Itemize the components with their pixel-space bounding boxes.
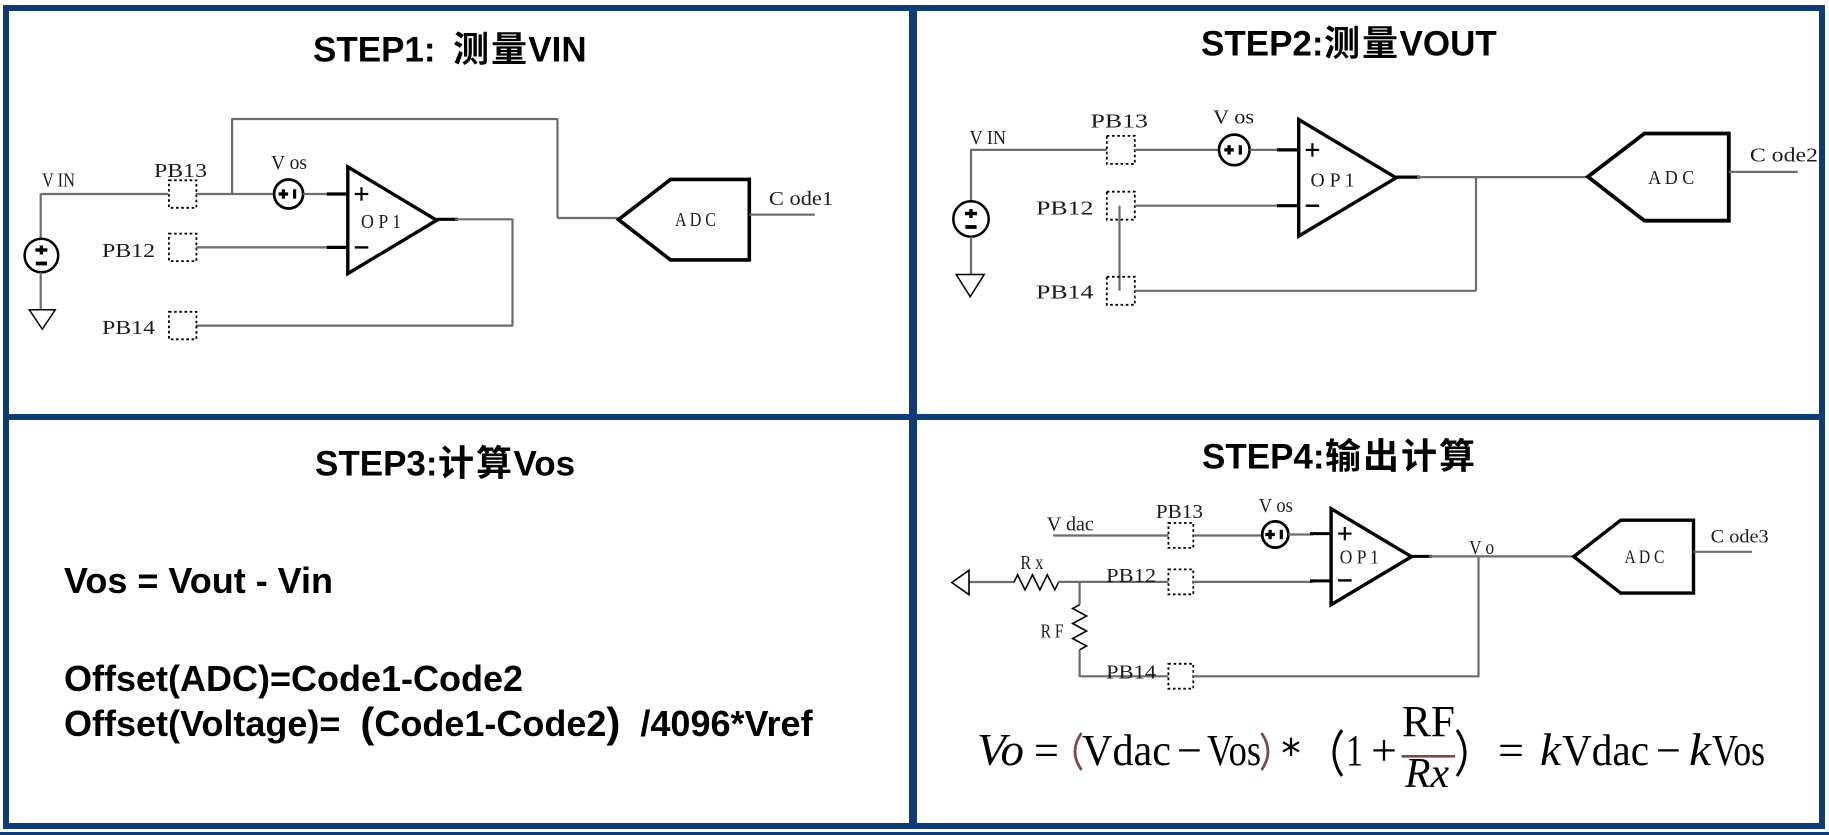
wire V1 to ground (Q1) <box>40 272 42 310</box>
op-amp - input stub (Q4) <box>1310 579 1331 582</box>
title STEP2 <box>1201 24 1497 62</box>
wire op-amp output to ADC (Q2) <box>1417 176 1588 178</box>
resistor RF (Q4) <box>1073 605 1087 650</box>
label PB14 (Q1) <box>102 317 155 339</box>
svg-text:O P 1: O P 1 <box>1311 170 1355 192</box>
op-amp output stub (Q2) <box>1396 176 1420 179</box>
output equation: open paren brown (STEP4) <box>1075 733 1082 770</box>
output equation: Vo term (STEP4) <box>977 724 1024 775</box>
label RF (Q4) <box>1041 621 1064 643</box>
wire VIN to PB13 (Q1) <box>41 193 169 195</box>
output equation: close paren brown (STEP4) <box>1262 733 1269 770</box>
net label Code1 (Q1) <box>769 188 833 210</box>
net label Code2 (Q2) <box>1750 145 1818 167</box>
net label Vo (Q4) <box>1469 537 1494 559</box>
label PB12 (Q4) <box>1106 565 1156 587</box>
wire Vo down to PB14 line (Q4) <box>1477 556 1479 677</box>
ADC block (Q4) <box>1574 520 1694 593</box>
net label Vdac (Q4) <box>1047 514 1094 536</box>
svg-text:R F: R F <box>1041 621 1064 643</box>
output equation: Vdac minus Vos (STEP4) <box>1082 726 1261 775</box>
wire into ADC (Q1) <box>558 217 619 219</box>
panel frame STEP2 <box>909 5 1825 420</box>
svg-text:PB14: PB14 <box>1036 282 1094 304</box>
svg-text:PB13: PB13 <box>1156 501 1203 523</box>
svg-text:V os: V os <box>1259 495 1293 517</box>
label Vos (Q4) <box>1259 495 1293 517</box>
switch pin PB14 (Q1) <box>169 312 197 340</box>
wire V1 to ground (Q2) <box>970 237 972 275</box>
svg-text:O P 1: O P 1 <box>1340 547 1379 569</box>
output equation: fullwidth open paren (STEP4) <box>1334 730 1342 776</box>
switch pin PB13 (Q4) <box>1168 523 1193 548</box>
svg-text:C ode3: C ode3 <box>1711 527 1769 548</box>
label PB13 (Q4) <box>1156 501 1203 523</box>
ground (Q1) <box>29 310 55 329</box>
net label VIN (Q1) <box>42 170 75 192</box>
label Vos (Q1) <box>271 152 307 174</box>
wire PB12 to op-amp - input (Q1) <box>196 246 330 248</box>
output equation: fraction bar (STEP4) <box>1402 755 1456 758</box>
op-amp OP1 (Q1) <box>348 167 437 274</box>
svg-text:−: − <box>1656 726 1681 775</box>
ground (Q2) <box>956 275 984 297</box>
svg-text:PB12: PB12 <box>102 240 155 262</box>
op-amp output stub (Q1) <box>437 218 458 221</box>
svg-text:V IN: V IN <box>42 170 75 192</box>
svg-text:=: = <box>1034 726 1059 775</box>
switch pin PB14 (Q2) <box>1107 277 1135 305</box>
bottom edge bar <box>0 832 1829 835</box>
svg-text:PB12: PB12 <box>1106 565 1156 587</box>
wire Vos to op-amp + input (Q4) <box>1288 533 1313 535</box>
label Rx (Q4) <box>1020 552 1043 574</box>
wire ADC output Code3 (Q4) <box>1694 551 1753 553</box>
label PB13 (Q2) <box>1091 111 1149 133</box>
svg-text:A D C: A D C <box>1625 547 1665 568</box>
net label Code3 (Q4) <box>1711 527 1769 548</box>
equation Vos = Vout - Vin (STEP3) <box>64 563 333 599</box>
op-amp + input stub (Q4) <box>1310 532 1331 535</box>
switch pin PB12 (Q4) <box>1168 569 1193 594</box>
label ADC (Q4) <box>1625 547 1665 568</box>
switch pin PB12 (Q2) <box>1107 192 1135 220</box>
wire Vos to op-amp + input (Q2) <box>1250 149 1281 151</box>
op-amp output stub (Q4) <box>1412 555 1433 558</box>
svg-text:=: = <box>1498 726 1524 775</box>
wire VIN to PB13 (Q2) <box>971 149 1107 151</box>
wire PB13 to Vos source (Q4) <box>1193 534 1262 536</box>
wire PB12 to op-amp - input (Q2) <box>1135 205 1281 207</box>
output equation: fraction denominator Rx (STEP4) <box>1404 751 1449 797</box>
svg-text:−: − <box>1177 726 1202 775</box>
switch pin PB13 (Q1) <box>169 180 197 208</box>
voltage source V1 (Q1) <box>25 239 59 273</box>
output equation: asterisk operator (STEP4) <box>1283 738 1299 756</box>
svg-text:V dac: V dac <box>1047 514 1094 536</box>
svg-text:O P 1: O P 1 <box>361 211 401 233</box>
wire RF down to PB14 line (Q4) <box>1078 650 1080 677</box>
label PB12 (Q2) <box>1036 198 1094 220</box>
resistor Rx (Q4) <box>1014 575 1059 590</box>
svg-text:Vos: Vos <box>1207 726 1261 775</box>
wire Rx to PB12 (Q4) <box>1058 581 1169 583</box>
wire VIN down to source V1 (Q1) <box>40 193 42 239</box>
label PB13 (Q1) <box>154 160 207 182</box>
output equation: one plus (STEP4) <box>1346 726 1397 775</box>
wire top feedback horizontal (Q1) <box>231 118 557 120</box>
svg-text:A D C: A D C <box>1648 167 1694 189</box>
svg-text:PB12: PB12 <box>1036 198 1094 220</box>
output equation: equals (STEP4) <box>1034 726 1059 775</box>
svg-text:Vdac: Vdac <box>1082 726 1171 775</box>
svg-text:k: k <box>1689 724 1713 775</box>
label PB14 (Q4) <box>1106 662 1156 684</box>
offset source Vos (Q1) <box>274 180 303 209</box>
svg-text:C ode1: C ode1 <box>769 188 833 210</box>
op-amp - input stub (Q2) <box>1277 204 1299 207</box>
svg-text:C ode2: C ode2 <box>1750 145 1818 167</box>
output equation: kVos (STEP4) <box>1689 724 1765 775</box>
ADC block (Q2) <box>1588 134 1729 221</box>
panel frame STEP3 <box>3 414 917 829</box>
op-amp + input stub (Q2) <box>1277 148 1299 151</box>
title STEP4 <box>1202 437 1477 475</box>
svg-text:A D C: A D C <box>675 209 716 231</box>
voltage source V1 (Q2) <box>953 201 988 236</box>
equation Offset(Voltage) (STEP3) <box>64 705 813 742</box>
wire op-amp output (Q1) <box>455 218 513 220</box>
label Vos (Q2) <box>1213 107 1254 129</box>
net label VIN (Q2) <box>970 127 1007 149</box>
svg-text:+: + <box>1371 726 1397 775</box>
wire op-amp output to ADC (Q4) <box>1429 555 1574 557</box>
op-amp OP1 (Q2) <box>1299 120 1396 237</box>
wire Vos to op-amp + input (Q1) <box>303 193 330 195</box>
title STEP3 <box>315 444 575 482</box>
output equation: kVdac (STEP4) <box>1540 724 1649 775</box>
svg-text:PB14: PB14 <box>102 317 155 339</box>
label PB12 (Q1) <box>102 240 155 262</box>
svg-text:Vo: Vo <box>977 724 1024 775</box>
offset source Vos (Q4) <box>1262 521 1288 547</box>
panel frame STEP4 <box>909 414 1825 829</box>
svg-text:Vos: Vos <box>1712 726 1765 775</box>
op-amp + input stub (Q1) <box>327 192 348 195</box>
wire feedback vertical to output (Q2) <box>1475 176 1477 290</box>
svg-text:Rx: Rx <box>1404 751 1449 797</box>
svg-text:1: 1 <box>1346 726 1363 775</box>
svg-text:PB14: PB14 <box>1106 662 1156 684</box>
node A feedback tap vertical (Q1) <box>231 119 233 194</box>
wire PB14 to Vo branch (Q4) <box>1193 675 1479 677</box>
switch pin PB14 (Q4) <box>1168 664 1193 689</box>
svg-text:PB13: PB13 <box>1091 111 1149 133</box>
wire ADC output Code2 (Q2) <box>1729 171 1798 173</box>
wire junction down to RF (Q4) <box>1078 582 1080 605</box>
wire ADC output Code1 (Q1) <box>749 214 815 216</box>
output equation: fraction numerator RF (STEP4) <box>1402 697 1455 746</box>
svg-text:V os: V os <box>1213 107 1254 129</box>
switch pin PB12 (Q1) <box>169 234 197 262</box>
output equation: minus (STEP4) <box>1656 726 1681 775</box>
wire PB14 feedback (Q1) <box>196 325 513 327</box>
wire PB12 to op-amp - input (Q4) <box>1193 581 1313 583</box>
op-amp - input stub (Q1) <box>327 246 348 249</box>
title STEP1 <box>313 30 587 68</box>
svg-text:PB13: PB13 <box>154 160 207 182</box>
svg-text:Vdac: Vdac <box>1562 726 1649 775</box>
wire RF to PB14 (Q4) <box>1080 675 1169 677</box>
op-amp OP1 (Q4) <box>1331 509 1411 605</box>
label ADC (Q2) <box>1648 167 1694 189</box>
wire PB14 feedback horizontal (Q2) <box>1135 290 1476 292</box>
wire PB13 to Vos source (Q2) <box>1135 149 1219 151</box>
output equation: second equals (STEP4) <box>1498 726 1524 775</box>
svg-text:V os: V os <box>271 152 307 174</box>
offset source Vos (Q2) <box>1219 135 1250 166</box>
wire VIN down to source V1 (Q2) <box>970 149 972 201</box>
wire output down to PB14 (Q1) <box>511 219 513 326</box>
svg-text:V IN: V IN <box>970 127 1007 149</box>
wire PB12 to PB14 vertical link (Q2) <box>1118 206 1120 291</box>
label PB14 (Q2) <box>1036 282 1094 304</box>
equation Offset(ADC) (STEP3) <box>64 661 523 697</box>
switch pin PB13 (Q2) <box>1107 136 1135 164</box>
label ADC (Q1) <box>675 209 716 231</box>
ADC block (Q1) <box>619 179 750 260</box>
svg-text:k: k <box>1540 724 1563 775</box>
input arrow terminal (Q4) <box>952 570 969 594</box>
wire Vdac to PB13 (Q4) <box>1053 534 1168 536</box>
panel frame STEP1 <box>3 5 917 420</box>
svg-text:R x: R x <box>1020 552 1043 574</box>
wire feedback down to ADC input (Q1) <box>556 118 558 218</box>
output equation: fullwidth close paren (STEP4) <box>1457 730 1465 776</box>
wire arrow to Rx (Q4) <box>969 581 1014 583</box>
svg-text:RF: RF <box>1402 697 1455 746</box>
wire PB13 to Vos source (Q1) <box>196 193 274 195</box>
